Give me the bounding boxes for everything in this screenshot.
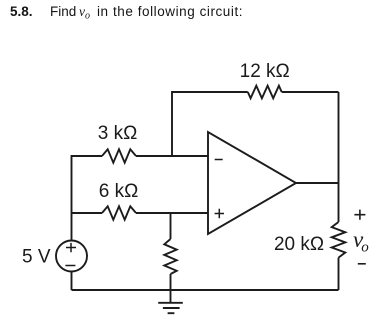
wire: top feedback to output rail	[282, 91, 339, 93]
svg-text:12 kΩ: 12 kΩ	[240, 61, 290, 82]
op-amp noninverting pin plus sign	[215, 209, 224, 218]
svg-text:vo: vo	[353, 227, 369, 256]
resistor R 20 kΩ (load)	[332, 222, 346, 258]
wire: grounded resistor top stub	[170, 213, 172, 239]
resistor R 12 kΩ (feedback)	[248, 86, 282, 99]
svg-text:5 V: 5 V	[22, 247, 51, 268]
wire: feedback branch from inverting node up and across top	[172, 92, 248, 156]
wire: grounded resistor bottom stub to bottom rail and ground	[170, 274, 172, 303]
bottom rail wire	[72, 289, 339, 291]
ground symbol	[158, 303, 183, 313]
svg-text:20 kΩ: 20 kΩ	[274, 234, 324, 255]
wire: source bottom to bottom rail	[71, 272, 73, 291]
resistor (noninverting input to ground)	[164, 239, 176, 274]
wire: 3 kΩ to inverting input	[136, 155, 208, 157]
wire: left rail upper segment (source to input resistors)	[72, 156, 103, 241]
wire: 6 kΩ to noninverting input	[136, 212, 208, 214]
op-amp U1 triangle	[208, 132, 296, 234]
svg-text:6 kΩ: 6 kΩ	[99, 181, 139, 202]
source minus sign	[65, 265, 75, 267]
wire: left rail to 6 kΩ	[72, 212, 103, 214]
svg-text:3 kΩ: 3 kΩ	[98, 123, 138, 144]
wire: output rail upper segment	[338, 92, 340, 222]
wire: op-amp output	[296, 182, 339, 184]
op-amp inverting pin minus sign	[215, 159, 223, 161]
vo plus sign	[354, 210, 365, 220]
wire: output rail lower segment	[338, 258, 340, 290]
resistor R 6 kΩ	[102, 206, 136, 219]
voltage source V1 5 V	[56, 241, 87, 272]
resistor R 3 kΩ	[102, 149, 136, 162]
source plus sign	[66, 243, 76, 252]
vo minus sign	[358, 263, 366, 265]
svg-text:5.8.Findvoin the following cir: 5.8.Findvoin the following circuit:	[10, 4, 243, 22]
